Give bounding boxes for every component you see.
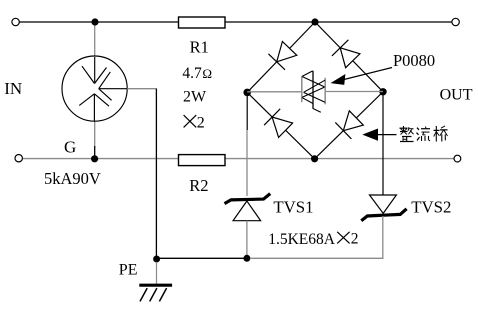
svg-text:P0080: P0080 bbox=[393, 51, 435, 70]
svg-text:G: G bbox=[64, 137, 76, 156]
svg-text:TVS1: TVS1 bbox=[273, 198, 313, 217]
svg-text:4.7Ω: 4.7Ω bbox=[182, 65, 212, 82]
svg-text:2: 2 bbox=[197, 115, 205, 132]
svg-text:PE: PE bbox=[119, 262, 138, 279]
svg-text:2: 2 bbox=[351, 231, 359, 248]
svg-text:R2: R2 bbox=[189, 176, 208, 195]
svg-text:R1: R1 bbox=[190, 37, 209, 56]
svg-text:OUT: OUT bbox=[440, 86, 473, 103]
svg-text:IN: IN bbox=[4, 79, 22, 98]
svg-text:5kA90V: 5kA90V bbox=[44, 169, 101, 188]
svg-text:TVS2: TVS2 bbox=[411, 198, 451, 217]
svg-text:2W: 2W bbox=[183, 89, 207, 106]
svg-text:1.5KE68A: 1.5KE68A bbox=[268, 231, 336, 248]
